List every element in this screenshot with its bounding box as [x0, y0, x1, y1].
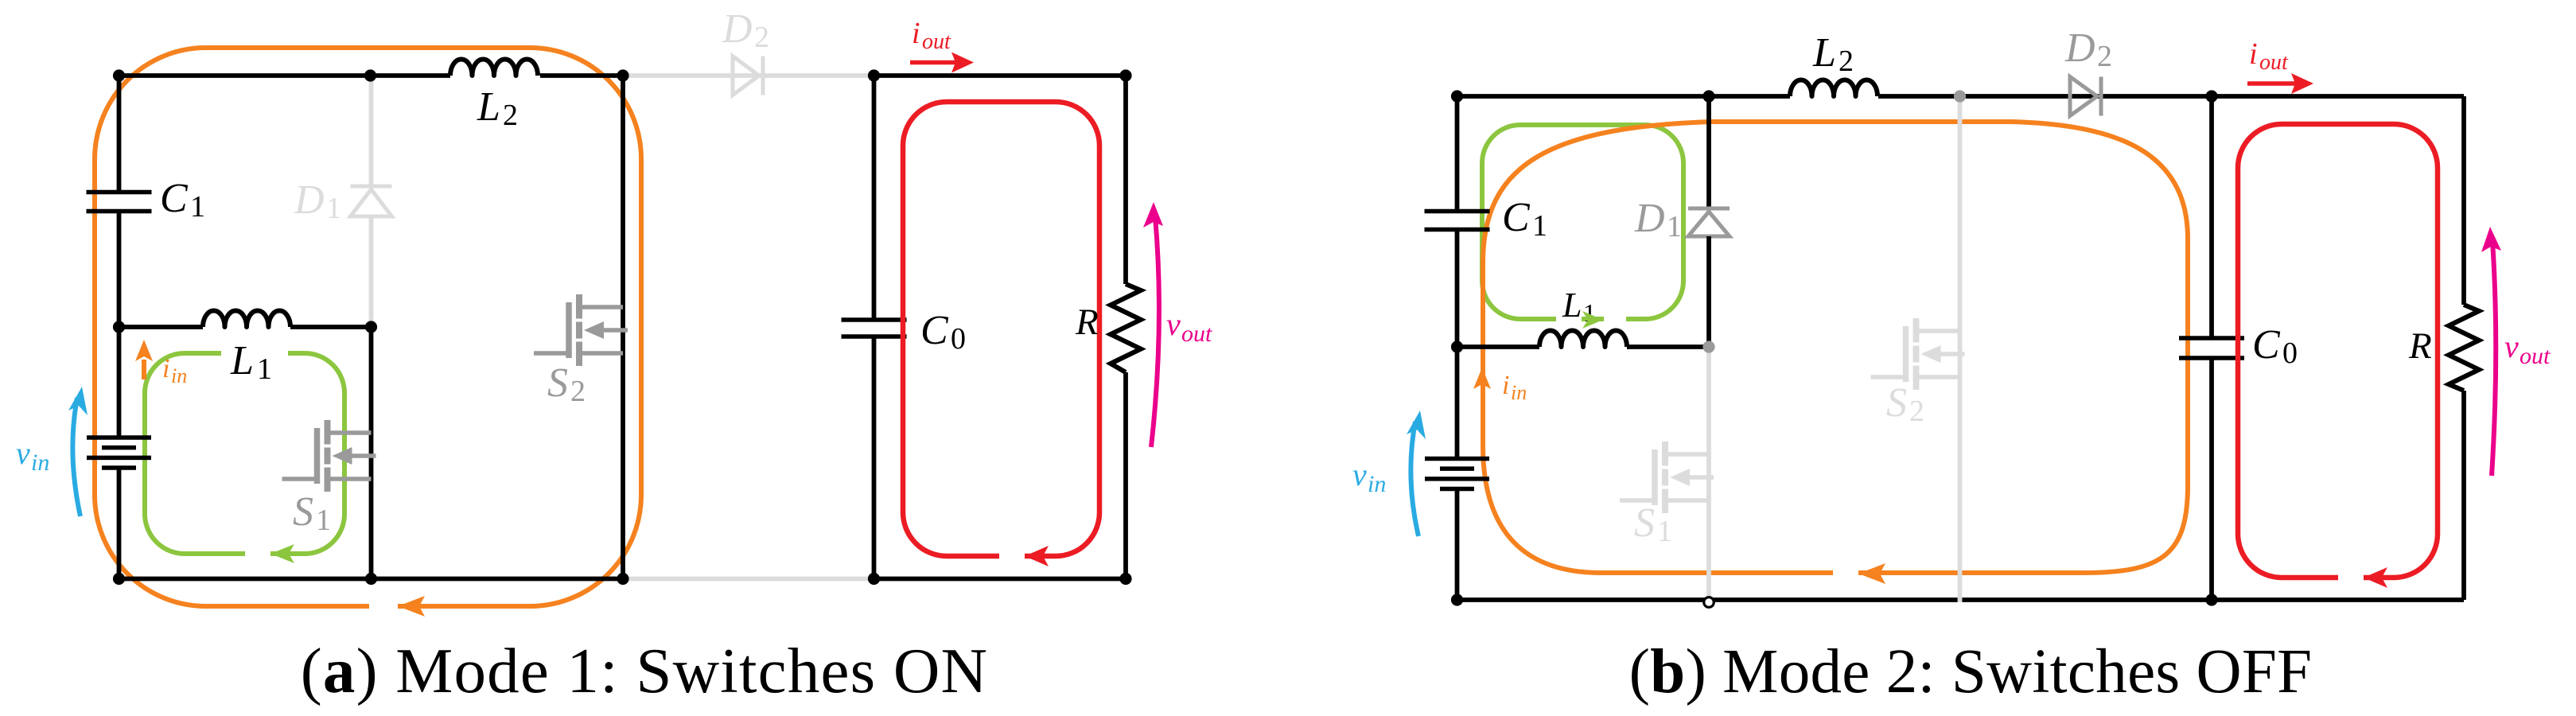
red loop arrowhead (a) — [1025, 546, 1049, 566]
svg-text:(b) Mode 2: Switches OFF: (b) Mode 2: Switches OFF — [1629, 637, 2313, 706]
label i_out (b) — [2249, 37, 2289, 75]
battery vin (a) — [87, 438, 151, 468]
wire left rail (b): C1 to battery — [1455, 230, 1460, 459]
svg-text:(a) Mode 1: Switches ON: (a) Mode 1: Switches ON — [301, 635, 989, 706]
wire D1 branch lower (b) — [1706, 236, 1711, 347]
svg-text:i: i — [1502, 371, 1509, 400]
label L2 (a) — [477, 84, 518, 132]
node bottom-left (a) — [113, 573, 125, 585]
svg-text:v: v — [1166, 306, 1181, 342]
wire D1 branch upper (b) — [1706, 96, 1711, 208]
svg-text:S: S — [547, 360, 568, 406]
svg-text:C: C — [2252, 322, 2281, 368]
svg-text:R: R — [2408, 325, 2432, 367]
svg-text:1: 1 — [1657, 515, 1672, 548]
wire bottom (b) — [1457, 597, 2465, 602]
svg-text:C: C — [160, 176, 189, 221]
label C1 (b) — [1502, 195, 1547, 243]
svg-text:1: 1 — [316, 504, 331, 537]
red loop gap (a) — [999, 549, 1025, 563]
capacitor C0 (b) — [2179, 338, 2244, 358]
red output-loop current path (b) — [2238, 124, 2438, 578]
wire S2 branch (b, inactive) — [1958, 96, 1963, 602]
label L1 (a) — [230, 338, 272, 386]
mosfet S1 (a) — [282, 420, 376, 492]
wire left rail (a): battery to bottom — [117, 468, 122, 579]
battery vin (b) — [1425, 459, 1489, 489]
arrow v_out (b) — [2481, 227, 2501, 476]
node top-left (b) — [1451, 90, 1463, 102]
node bottom-left (b) — [1451, 593, 1463, 605]
label C0 (a) — [920, 308, 966, 356]
svg-text:1: 1 — [1532, 209, 1547, 243]
caption (a) — [301, 635, 989, 706]
svg-text:in: in — [1511, 381, 1527, 404]
node top-C0 (b) — [2205, 90, 2217, 102]
wire L1 (a): right — [290, 325, 372, 329]
diode D2 (a, inactive) — [733, 56, 763, 95]
svg-text:out: out — [2259, 50, 2289, 75]
wire left rail (b): top to C1 — [1455, 96, 1460, 212]
label L1 white backing (a) — [221, 343, 288, 385]
wire output top (a) — [874, 73, 1127, 78]
label D2 (b, conducting) — [2064, 25, 2112, 73]
svg-text:0: 0 — [2282, 337, 2298, 370]
label R (b) — [2408, 325, 2432, 367]
svg-text:1: 1 — [326, 192, 341, 225]
green L1-loop current path (a) — [145, 353, 344, 554]
node top-D1 (b) — [1702, 90, 1714, 102]
capacitor C1 (a) — [87, 193, 152, 212]
wire D2 branch (a, inactive) — [623, 73, 874, 78]
label D1 (b, conducting) — [1634, 196, 1682, 243]
wire left rail (b): battery to bottom — [1455, 489, 1460, 600]
node top-left (a) — [113, 69, 125, 81]
arrow i_out (b) — [2247, 73, 2313, 94]
wire L1 (b): right — [1627, 344, 1709, 349]
orange loop gap (b) — [1833, 566, 1858, 581]
wire bottom link (a, inactive) — [623, 577, 874, 582]
node output top-left (a) — [868, 69, 880, 81]
green loop gap (a) — [245, 547, 270, 561]
label R (a) — [1075, 302, 1099, 343]
node bottom-C0 (b) — [2205, 593, 2217, 605]
green loop gap (b) — [1604, 312, 1626, 326]
label i_in (a) — [162, 354, 187, 387]
orange loop arrowhead (b) — [1858, 563, 1885, 584]
inductor L2 (a) — [450, 60, 538, 76]
red loop arrowhead (b) — [2364, 567, 2387, 588]
wire S1 branch (a) — [369, 327, 374, 579]
green loop arrowhead (a) — [270, 544, 294, 563]
node top-middle (a) — [364, 69, 376, 81]
diode D1 (b, conducting) — [1688, 208, 1730, 236]
wire S2 rail (a) — [621, 76, 625, 579]
label S2 (a) — [547, 360, 586, 408]
diode D1 (a, inactive) — [351, 186, 392, 216]
resistor R (b) — [2449, 305, 2479, 391]
svg-text:L: L — [477, 84, 500, 130]
svg-text:in: in — [31, 449, 49, 476]
svg-text:v: v — [16, 435, 30, 471]
svg-text:i: i — [162, 354, 169, 383]
svg-text:in: in — [171, 364, 187, 387]
node bottom-right (a) — [617, 573, 628, 585]
wire C0 rail lower (a) — [872, 337, 877, 579]
svg-text:2: 2 — [1839, 45, 1854, 78]
svg-text:i: i — [912, 17, 920, 50]
wire C0 rail upper (b) — [2209, 96, 2214, 338]
svg-text:1: 1 — [257, 352, 272, 386]
node output top-right (a) — [1119, 69, 1131, 81]
svg-text:out: out — [2520, 343, 2551, 369]
orange input-loop current path (a) — [95, 48, 641, 606]
svg-text:out: out — [922, 29, 951, 54]
label S2 (b, inactive) — [1886, 380, 1924, 428]
inductor L2 (b) — [1790, 80, 1878, 96]
wire R rail lower (a) — [1123, 372, 1128, 579]
wire top (a): node1 to L2 — [119, 73, 451, 78]
label L1 (b) — [1562, 286, 1596, 327]
red output-loop current path (a) — [903, 102, 1099, 556]
node L1-right (b, inactive) — [1702, 340, 1714, 352]
wire C0 rail lower (b) — [2209, 358, 2214, 600]
label D2 (a, inactive) — [722, 6, 769, 54]
svg-text:C: C — [920, 308, 949, 353]
wire bottom (a) — [119, 577, 624, 582]
node L1-right (a) — [365, 321, 377, 333]
capacitor C0 (a) — [842, 320, 907, 337]
label v_in (a) — [16, 435, 49, 476]
label v_out (a) — [1166, 306, 1212, 347]
node L1-left (b) — [1451, 340, 1463, 352]
svg-text:1: 1 — [190, 190, 205, 224]
wire top (a): L2 to S2 rail — [540, 73, 623, 78]
wire output bottom (a) — [874, 577, 1127, 582]
node top-right (a) — [617, 69, 628, 81]
wire right rail lower (b) — [2461, 391, 2466, 600]
label i_out (a) — [912, 17, 951, 54]
svg-text:D: D — [1634, 196, 1665, 241]
svg-text:2: 2 — [503, 99, 518, 132]
open node bottom-S1 (b) — [1704, 597, 1714, 608]
arrow v_in (b) — [1407, 411, 1426, 536]
wire D1 branch upper (a, inactive) — [369, 76, 374, 186]
label v_out (b) — [2504, 329, 2551, 369]
wire right rail upper (b) — [2461, 96, 2466, 305]
svg-text:D: D — [294, 177, 325, 223]
svg-text:R: R — [1075, 302, 1099, 343]
inductor L1 (a) — [203, 311, 290, 328]
svg-text:2: 2 — [2097, 40, 2112, 73]
node output bottom-right (a) — [1119, 573, 1131, 585]
svg-text:C: C — [1502, 195, 1531, 240]
orange input-loop current path (b) — [1483, 122, 2188, 573]
svg-text:1: 1 — [1667, 210, 1682, 243]
svg-text:2: 2 — [1909, 395, 1924, 428]
arrow i_out (a) — [910, 53, 974, 73]
svg-text:S: S — [1634, 500, 1655, 546]
svg-text:D: D — [2064, 25, 2095, 71]
node bottom-S1 (a) — [365, 573, 377, 585]
orange loop arrowhead (a) — [398, 596, 425, 617]
arrow i_in (a) — [135, 340, 153, 379]
svg-text:v: v — [1352, 457, 1367, 492]
inductor L1 (b) — [1539, 330, 1627, 347]
caption (b) — [1629, 637, 2313, 706]
arrow v_out (a) — [1143, 202, 1163, 447]
svg-text:in: in — [1368, 471, 1386, 497]
svg-text:L: L — [1562, 286, 1582, 325]
mosfet S2 (a) — [534, 294, 628, 366]
orange loop gap (a) — [369, 599, 398, 613]
diode D2 (b, conducting) — [2070, 77, 2101, 116]
node top-S2 (b, inactive) — [1954, 90, 1966, 102]
wire left rail (a): C1 to battery — [117, 212, 122, 438]
wire top (b): left to L2 — [1457, 94, 1791, 99]
svg-text:2: 2 — [754, 21, 769, 54]
svg-text:L: L — [1812, 30, 1836, 76]
svg-text:i: i — [2249, 37, 2258, 71]
svg-text:out: out — [1181, 321, 1212, 347]
wire L1 (a): left — [119, 325, 204, 329]
label L2 (b) — [1812, 30, 1854, 78]
wire left rail (a): top to C1 — [117, 76, 122, 193]
arrow v_in (a) — [68, 387, 88, 516]
resistor R (a) — [1111, 284, 1141, 372]
label C0 (b) — [2252, 322, 2298, 370]
node L1-left (a) — [113, 321, 125, 333]
svg-text:L: L — [230, 338, 254, 383]
wire S1 branch (b, inactive) — [1706, 347, 1711, 602]
label L1 white backing (b) — [1556, 309, 1582, 323]
green loop arrowhead (b) — [1582, 311, 1603, 329]
svg-text:v: v — [2504, 329, 2519, 364]
label C1 (a) — [160, 176, 205, 224]
node output bottom-left (a) — [868, 573, 880, 585]
red loop gap (b) — [2338, 570, 2364, 585]
label v_in (b) — [1352, 457, 1386, 497]
green C1-L1-D1 loop current path (b) — [1482, 125, 1683, 319]
capacitor C1 (b) — [1425, 212, 1490, 230]
label D1 (a, inactive) — [294, 177, 341, 225]
wire L1 (b): left — [1457, 344, 1540, 349]
mosfet S1 (b, inactive) — [1620, 442, 1714, 513]
label S1 (a) — [293, 489, 331, 537]
wire top (b): L2 to right — [1878, 94, 2464, 99]
svg-text:S: S — [1886, 380, 1907, 426]
svg-text:D: D — [722, 6, 753, 52]
label i_in (b) — [1502, 371, 1527, 404]
wire C0 rail upper (a) — [872, 76, 877, 320]
label S1 (b, inactive) — [1634, 500, 1672, 548]
wire R rail upper (a) — [1123, 76, 1128, 284]
svg-text:0: 0 — [951, 322, 966, 356]
wire D1 branch lower (a, inactive) — [369, 216, 374, 327]
arrow i_in (b) — [1473, 368, 1491, 389]
svg-text:S: S — [293, 489, 313, 535]
mosfet S2 (b, inactive) — [1871, 318, 1965, 390]
svg-text:2: 2 — [570, 375, 586, 408]
